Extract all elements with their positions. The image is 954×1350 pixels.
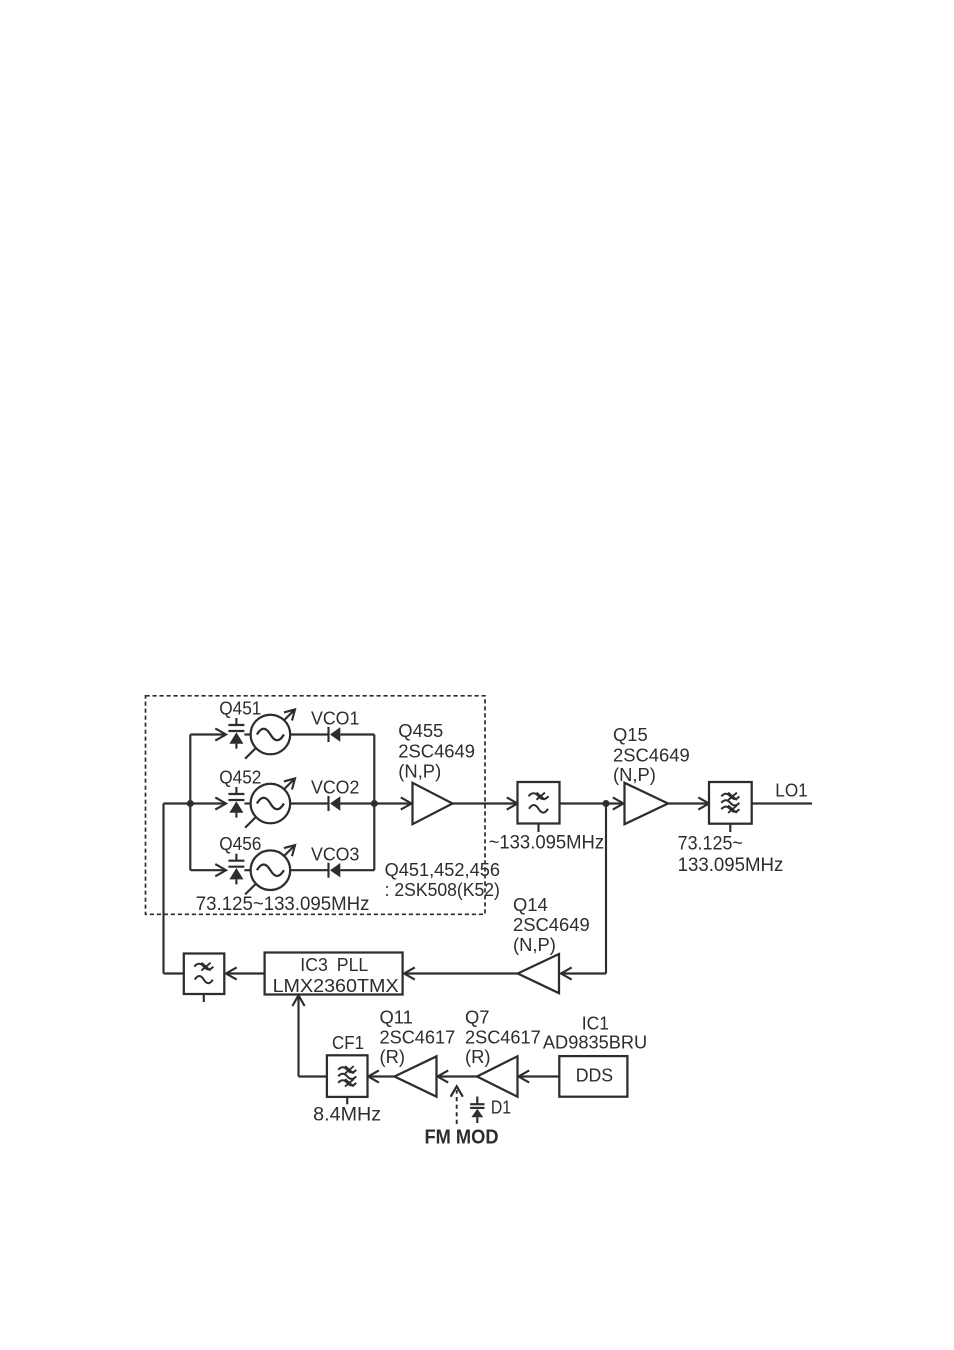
wire varactor to oscillator VCO2: [244, 802, 252, 804]
svg-text:133.095MHz: 133.095MHz: [678, 854, 784, 876]
arrow into amplifier Q455: [401, 797, 412, 809]
wire oscillator to switch diode VCO3: [290, 869, 328, 871]
varactor diode D1: [470, 1097, 484, 1124]
wire feed horizontal into left bus: [164, 802, 191, 804]
wire Q7 to Q11: [438, 1075, 478, 1077]
svg-text:VCO2: VCO2: [311, 777, 359, 798]
arrow into varactor Q451: [215, 728, 226, 740]
left bus wire (joins three varactor branches): [189, 735, 191, 871]
node junction dot on left bus: [187, 800, 194, 807]
arrow up into IC3 bottom: [292, 995, 304, 1006]
sine symbol inside VCO2: [257, 798, 284, 810]
svg-text:~133.095MHz: ~133.095MHz: [489, 832, 604, 854]
dashed enclosure box (VCO section): [146, 696, 486, 915]
switch diode VCO1 (cathode bar and triangle): [329, 727, 341, 742]
wire IC3 to loop filter: [227, 972, 265, 974]
svg-text:D1: D1: [491, 1097, 511, 1118]
amplifier Q455 triangle: [413, 783, 453, 824]
stub under loop filter: [203, 994, 205, 1002]
wire tap down to Q14: [605, 804, 607, 974]
svg-text:: 2SK508(K52): : 2SK508(K52): [385, 879, 500, 900]
wire Q14 to IC3: [404, 972, 518, 974]
wire oscillator to switch diode VCO1: [290, 733, 328, 735]
svg-text:73.125~: 73.125~: [678, 833, 743, 855]
wire LO1 output: [752, 802, 812, 804]
svg-text:8.4MHz: 8.4MHz: [313, 1105, 381, 1126]
sine symbol inside VCO3: [257, 864, 284, 876]
wire diode VCO2 to right bus: [340, 802, 374, 804]
wire into varactor Q451: [190, 733, 225, 735]
wire into varactor Q456: [190, 869, 225, 871]
wire DDS to Q7: [519, 1075, 560, 1077]
wire feed from loop filter up to VCO bank (horizontal bottom): [164, 972, 184, 974]
svg-text:FM MOD: FM MOD: [425, 1127, 499, 1149]
right bus wire (diode outputs): [373, 735, 375, 871]
arrow into amplifier Q14: [561, 967, 572, 979]
stub filter FL2 to label: [729, 824, 731, 832]
label Q11: [380, 1007, 456, 1067]
svg-text:Q452: Q452: [219, 766, 261, 787]
svg-text:VCO3: VCO3: [311, 843, 359, 864]
wire diode VCO3 to right bus: [340, 869, 374, 871]
IC U-IC3 PLL box: [265, 953, 403, 995]
svg-text:(N,P): (N,P): [398, 761, 441, 782]
sine symbol inside VCO1: [257, 729, 284, 741]
tuning arrow through VCO2: [245, 778, 295, 827]
wire into varactor Q452: [190, 802, 225, 804]
svg-text:Q15: Q15: [613, 724, 648, 745]
svg-text:(N,P): (N,P): [613, 764, 656, 785]
svg-text:Q11: Q11: [380, 1007, 413, 1028]
dashed FM MOD arrow shaft: [456, 1090, 458, 1124]
switch diode VCO2 (cathode bar and triangle): [329, 796, 341, 811]
svg-text:Q451: Q451: [219, 697, 261, 718]
wire CF1 output to IC3 (horizontal): [299, 1075, 327, 1077]
svg-text:VCO1: VCO1: [311, 708, 359, 729]
svg-text:AD9835BRU: AD9835BRU: [543, 1032, 647, 1053]
svg-text:2SC4649: 2SC4649: [613, 745, 690, 766]
varactor diode Q456: [228, 854, 244, 885]
wire filter FL1 to Q15: [560, 802, 623, 804]
switch diode VCO3 (cathode bar and triangle): [329, 863, 341, 878]
label Q15: [613, 724, 690, 785]
varactor diode Q451: [228, 718, 244, 749]
arrow into varactor Q456: [215, 864, 226, 876]
varactor diode Q452: [228, 787, 244, 818]
svg-text:IC3 PLL: IC3 PLL: [300, 954, 368, 975]
oscillator circle VCO1: [251, 715, 291, 755]
svg-text:Q7: Q7: [465, 1007, 490, 1028]
oscillator circle VCO3: [251, 850, 291, 890]
low-pass filter box after Q455: [518, 782, 560, 824]
tuning arrow through VCO3: [245, 845, 295, 894]
band-pass filter box before LO1: [709, 782, 752, 824]
svg-text:(R): (R): [465, 1046, 491, 1067]
amplifier Q15 triangle: [625, 783, 669, 824]
wire into Q14: [561, 972, 607, 974]
svg-text:Q455: Q455: [398, 720, 443, 741]
amplifier Q14 triangle (points left): [518, 954, 559, 993]
wire CF1 output riser to IC3 bottom: [297, 996, 299, 1077]
wire varactor to oscillator VCO3: [244, 869, 252, 871]
wire varactor to oscillator VCO1: [244, 733, 252, 735]
svg-text:73.125~133.095MHz: 73.125~133.095MHz: [196, 893, 370, 915]
amplifier Q7 triangle (points left): [477, 1056, 518, 1096]
IC U-IC1 DDS box: [559, 1056, 627, 1097]
stub under CF1: [346, 1097, 348, 1104]
label Q14: [513, 894, 590, 955]
arrow into varactor Q452: [215, 797, 226, 809]
svg-text:(R): (R): [380, 1046, 406, 1067]
wire diode VCO1 to right bus: [340, 733, 374, 735]
tuning arrow through VCO1: [245, 709, 295, 758]
arrow FM MOD (up): [451, 1086, 463, 1096]
stub filter FL1 to label: [537, 824, 539, 833]
arrow into filter FL1: [507, 797, 518, 809]
label Q7: [465, 1007, 541, 1067]
arrow into Q7: [519, 1070, 530, 1082]
node junction dot on right bus: [371, 800, 378, 807]
arrow into loop filter: [226, 967, 237, 979]
svg-text:LMX2360TMX: LMX2360TMX: [273, 975, 399, 996]
svg-text:DDS: DDS: [576, 1064, 613, 1085]
svg-text:2SC4617: 2SC4617: [380, 1026, 456, 1047]
arrow into amplifier Q15: [613, 797, 624, 809]
label Q455: [398, 720, 475, 782]
wire Q455 to filter FL1: [453, 802, 518, 804]
wire feed vertical riser: [162, 804, 164, 974]
crystal filter CF1 box: [327, 1055, 368, 1097]
wire oscillator to switch diode VCO2: [290, 802, 328, 804]
svg-text:Q14: Q14: [513, 894, 548, 915]
svg-text:2SC4649: 2SC4649: [513, 914, 590, 935]
svg-text:Q456: Q456: [219, 833, 261, 854]
svg-text:2SC4649: 2SC4649: [398, 741, 475, 762]
arrow into filter FL2: [698, 797, 709, 809]
svg-text:2SC4617: 2SC4617: [465, 1026, 541, 1047]
loop low-pass filter box: [184, 954, 225, 995]
svg-text:CF1: CF1: [332, 1032, 364, 1053]
arrow into CF1: [368, 1070, 379, 1082]
svg-text:Q451,452,456: Q451,452,456: [385, 859, 500, 880]
svg-text:LO1: LO1: [775, 780, 807, 801]
amplifier Q11 triangle (points left): [395, 1056, 437, 1096]
wire right bus to Q455: [374, 802, 411, 804]
svg-text:(N,P): (N,P): [513, 934, 556, 955]
svg-text:IC1: IC1: [582, 1013, 609, 1034]
arrow into IC3 PLL: [404, 967, 415, 979]
oscillator circle VCO2: [251, 784, 291, 824]
wire Q15 to filter FL2: [668, 802, 709, 804]
arrow into Q11: [438, 1070, 449, 1082]
wire Q11 to CF1: [369, 1075, 395, 1077]
node junction dot to Q14 tap: [603, 800, 610, 807]
